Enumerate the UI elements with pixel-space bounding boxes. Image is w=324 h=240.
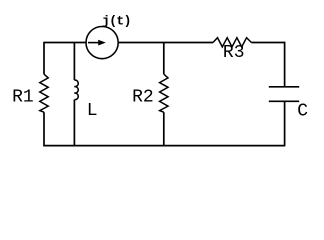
resistor R3 [213, 38, 251, 64]
wire top-middle (current source to R3) [118, 42, 213, 44]
wire top-left (node top to current source) [44, 42, 86, 44]
svg-text:L: L [87, 101, 98, 121]
wire left vertical upper (top to R1) [43, 42, 45, 74]
inductor L [74, 80, 97, 121]
wire right vertical upper (corner to capacitor) [284, 42, 286, 87]
wire top-right (R3 to right corner) [251, 42, 285, 44]
wire inductor branch upper [73, 43, 75, 81]
wire R2 branch lower [163, 112, 165, 145]
svg-text:j(t): j(t) [102, 13, 131, 28]
capacitor C [269, 87, 308, 122]
svg-text:C: C [297, 102, 308, 122]
svg-text:R3: R3 [223, 43, 245, 63]
resistor R2 [132, 74, 168, 112]
svg-text:R2: R2 [132, 87, 154, 107]
resistor R1 [12, 74, 48, 112]
wire right vertical lower (capacitor to bottom) [284, 101, 286, 145]
wire inductor branch lower [73, 100, 75, 146]
wire bottom rail [43, 145, 285, 147]
current source j(t) [86, 13, 131, 58]
svg-text:R1: R1 [12, 87, 34, 107]
wire R2 branch upper [163, 43, 165, 75]
wire left vertical lower (R1 to bottom) [43, 112, 45, 146]
